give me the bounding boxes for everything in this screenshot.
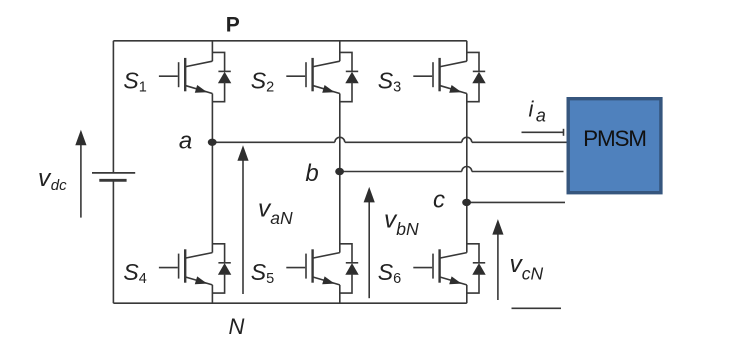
svg-text:S5: S5 — [251, 259, 274, 287]
wire: leg b lower-IGBT emitter to N rail — [339, 285, 341, 303]
svg-text:ia: ia — [529, 97, 546, 126]
transistor S1 — [159, 58, 213, 94]
arrow v_cN — [492, 219, 503, 300]
transistor S5 — [286, 249, 340, 285]
transistor S4 — [159, 249, 213, 285]
wire: lower stub to machine neutral — [512, 307, 562, 309]
transistor S2 — [286, 58, 340, 94]
freewheeling diode of S6 — [467, 244, 486, 293]
wire: leg b upper-IGBT collector — [339, 41, 341, 61]
svg-text:S3: S3 — [378, 68, 401, 96]
wire: phase b output — [340, 171, 462, 173]
wire: left vertical from P to source — [112, 41, 114, 172]
svg-text:vcN: vcN — [510, 251, 544, 284]
wire: i_a current measuring stub — [522, 131, 564, 133]
freewheeling diode of S1 — [212, 52, 231, 101]
freewheeling diode of S3 — [467, 52, 486, 101]
svg-text:vdc: vdc — [38, 165, 67, 194]
node a junction dot — [208, 139, 217, 146]
wire: leg a midsection (emitter S1 to collector S4) — [211, 94, 213, 253]
transistor S3 — [413, 58, 467, 94]
freewheeling diode of S2 — [340, 52, 359, 101]
svg-text:N: N — [229, 314, 245, 339]
svg-text:b: b — [305, 160, 318, 187]
svg-text:vbN: vbN — [384, 207, 419, 240]
wire: phase a continues — [345, 141, 462, 143]
wire: phase a to PMSM — [472, 141, 567, 143]
wire: bottom rail N — [113, 302, 466, 304]
svg-text:S6: S6 — [378, 259, 401, 287]
transistor S6 — [413, 249, 467, 285]
svg-text:a: a — [179, 128, 192, 155]
wire: leg c upper-IGBT collector — [466, 41, 468, 61]
svg-text:S4: S4 — [123, 259, 146, 287]
battery Vdc: short negative plate — [99, 179, 126, 182]
svg-text:vaN: vaN — [258, 196, 293, 229]
node c junction dot — [462, 199, 471, 206]
freewheeling diode of S5 — [340, 244, 359, 293]
wire: leg c midsection (emitter S3 to collector S6) — [466, 94, 468, 253]
battery Vdc: long positive plate — [92, 172, 135, 174]
arrow v_bN — [364, 187, 375, 298]
arrow v_aN — [237, 145, 248, 294]
wire: leg c lower-IGBT emitter to N rail — [466, 285, 468, 303]
wire: leg b midsection (emitter S2 to collector S5) — [339, 94, 341, 253]
wire: phase c to PMSM — [467, 201, 565, 203]
wire: phase b to PMSM — [472, 171, 564, 173]
wire: leg a upper-IGBT collector — [211, 41, 213, 61]
svg-text:PMSM: PMSM — [583, 126, 646, 151]
freewheeling diode of S4 — [212, 244, 231, 293]
arrow vdc direction — [75, 130, 86, 218]
i_a stub end tick — [563, 129, 565, 136]
wire hop: phase b over leg c — [462, 167, 472, 172]
wire hop: phase a over leg c — [462, 137, 472, 142]
wire: leg a lower-IGBT emitter to N rail — [211, 285, 213, 303]
wire: phase a output — [212, 141, 334, 143]
PMSM block — [568, 99, 661, 193]
svg-text:S1: S1 — [123, 68, 146, 96]
node b junction dot — [335, 168, 344, 175]
svg-text:c: c — [433, 187, 445, 214]
wire hop: phase a over leg b — [335, 137, 345, 142]
wire: top rail P — [113, 40, 466, 42]
svg-text:S2: S2 — [251, 68, 274, 96]
svg-text:P: P — [226, 14, 240, 37]
wire: left vertical from source to N — [112, 181, 114, 303]
